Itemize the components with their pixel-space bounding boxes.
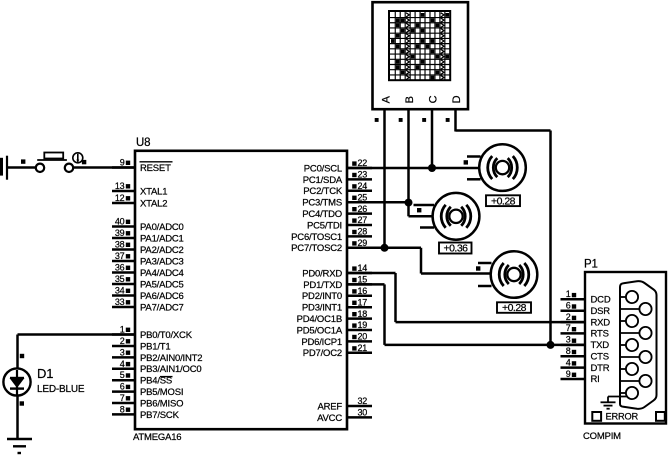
P1 internal ground: [601, 397, 627, 409]
svg-text:C: C: [428, 95, 440, 103]
wire PD1/TXD to P1 TXD: [347, 284, 585, 345]
wire PC0 to motor top: [347, 167, 480, 170]
pin end marker: [417, 208, 421, 212]
svg-text:PC6/TOSC1: PC6/TOSC1: [291, 232, 342, 243]
wire PD0/RXD to P1 RXD: [347, 273, 585, 322]
junction A/PC7: [381, 244, 389, 252]
pin 8 (PB7/SCK): [112, 404, 180, 420]
pin 35 (PA5/ADC5): [112, 274, 184, 290]
P1 pin 2 (RXD): [561, 312, 611, 328]
pin 2 (PB1/T1): [112, 336, 170, 352]
LED D1 LED-BLUE: [3, 366, 84, 396]
pin end marker: [20, 354, 24, 358]
svg-text:PA7/ADC7: PA7/ADC7: [140, 302, 184, 313]
P1 pin 9 (RI): [561, 369, 600, 385]
svg-text:9: 9: [120, 158, 125, 168]
svg-text:1: 1: [120, 325, 125, 335]
push button: [36, 153, 83, 173]
svg-text:9: 9: [566, 369, 571, 379]
ground: [7, 439, 32, 453]
svg-text:PA0/ADC0: PA0/ADC0: [140, 222, 184, 233]
svg-text:28: 28: [358, 227, 368, 237]
svg-text:PC4/TDO: PC4/TDO: [302, 209, 342, 220]
svg-text:35: 35: [115, 274, 125, 284]
svg-text:5: 5: [120, 370, 125, 380]
svg-text:COMPIM: COMPIM: [583, 431, 621, 442]
svg-text:8: 8: [566, 346, 571, 356]
svg-text:2: 2: [120, 336, 125, 346]
P1 pin 6 (DSR): [561, 301, 611, 317]
svg-text:19: 19: [358, 320, 368, 330]
pin end marker: [476, 266, 480, 270]
pin 21 (PD7/OC2): [303, 343, 372, 359]
wire PC7 to motor bottom: [347, 248, 492, 274]
svg-text:16: 16: [358, 286, 368, 296]
svg-text:PD3/INT1: PD3/INT1: [302, 303, 342, 314]
svg-text:B: B: [404, 96, 416, 103]
svg-text:26: 26: [358, 204, 368, 214]
wire terminal to button: [7, 166, 37, 169]
pin 9 (RESET): [112, 158, 173, 174]
pin 14 (PD0/RXD): [302, 263, 372, 279]
svg-text:DTR: DTR: [591, 363, 610, 374]
pin 12 (XTAL2): [112, 193, 167, 209]
svg-text:PC0/SCL: PC0/SCL: [304, 163, 342, 174]
pin 26 (PC4/TDO): [302, 204, 372, 220]
svg-text:32: 32: [358, 396, 368, 406]
svg-text:LED-BLUE: LED-BLUE: [37, 384, 85, 395]
svg-text:RI: RI: [591, 374, 600, 385]
svg-text:24: 24: [358, 181, 368, 191]
svg-text:RTS: RTS: [591, 329, 609, 340]
svg-text:8: 8: [120, 404, 125, 414]
svg-text:33: 33: [115, 297, 125, 307]
wire keypad A to PC7 net: [383, 108, 386, 248]
svg-text:D1: D1: [37, 366, 53, 381]
D-sub socket: [620, 281, 657, 409]
P1 pin 1 (DCD): [561, 289, 611, 305]
svg-text:PA1/ADC1: PA1/ADC1: [140, 233, 184, 244]
motor bottom value +0.28: [497, 302, 531, 314]
junction C/PC0: [428, 164, 436, 172]
svg-text:+0.28: +0.28: [491, 195, 516, 207]
svg-text:17: 17: [358, 297, 368, 307]
wire keypad C to PC0 net: [431, 108, 434, 168]
pin 25 (PC3/TMS): [302, 192, 372, 208]
pin 6 (PB5/MOSI): [112, 382, 183, 398]
svg-text:PB1/T1: PB1/T1: [140, 341, 170, 352]
svg-text:XTAL1: XTAL1: [140, 186, 167, 197]
pin 29 (PC7/TOSC2): [291, 238, 372, 254]
pin 40 (PA0/ADC0): [112, 217, 184, 233]
svg-text:29: 29: [358, 238, 368, 248]
pin 32 (AREF): [317, 396, 372, 412]
svg-text:D: D: [451, 95, 463, 103]
svg-text:RESET: RESET: [140, 163, 171, 174]
pin end marker: [82, 160, 86, 164]
svg-text:PC1/SDA: PC1/SDA: [303, 175, 343, 186]
wire keypad D to TXD net: [456, 108, 551, 345]
junction D/TXD: [547, 341, 555, 349]
svg-text:23: 23: [358, 170, 368, 180]
svg-text:AVCC: AVCC: [317, 413, 342, 424]
P1 pin 7 (RTS): [561, 323, 609, 339]
svg-text:3: 3: [566, 335, 571, 345]
svg-text:PD5/OC1A: PD5/OC1A: [297, 325, 343, 336]
keypad: [373, 2, 469, 109]
pin 1 (PB0/T0/XCK): [112, 325, 193, 341]
wire LED to ground: [16, 395, 19, 439]
svg-text:TXD: TXD: [591, 340, 610, 351]
svg-text:PD0/RXD: PD0/RXD: [302, 268, 342, 279]
svg-text:21: 21: [358, 343, 368, 353]
keypad bitmap: [389, 11, 450, 80]
pin 7 (PB6/MISO): [112, 393, 183, 409]
svg-text:14: 14: [358, 263, 368, 273]
svg-text:38: 38: [115, 240, 125, 250]
svg-text:PB5/MOSI: PB5/MOSI: [140, 387, 183, 398]
svg-text:+0.28: +0.28: [502, 302, 527, 314]
pin 37 (PA3/ADC3): [112, 251, 184, 267]
svg-text:PA4/ADC4: PA4/ADC4: [140, 268, 184, 279]
svg-text:30: 30: [358, 408, 368, 418]
svg-text:39: 39: [115, 228, 125, 238]
svg-text:34: 34: [115, 286, 125, 296]
svg-text:15: 15: [358, 275, 368, 285]
svg-text:AREF: AREF: [317, 401, 342, 412]
svg-text:18: 18: [358, 309, 368, 319]
pin 22 (PC0/SCL): [304, 158, 372, 174]
P1 pin 3 (TXD): [561, 335, 610, 351]
keypad pin D end marker: [446, 118, 450, 122]
svg-text:ATMEGA16: ATMEGA16: [133, 432, 181, 443]
P1 pin 4 (DTR): [561, 357, 610, 373]
wire button to RESET pin 9: [73, 166, 135, 169]
svg-text:PB7/SCK: PB7/SCK: [140, 410, 180, 421]
svg-text:PA3/ADC3: PA3/ADC3: [140, 256, 184, 267]
svg-text:20: 20: [358, 332, 368, 342]
svg-text:7: 7: [120, 393, 125, 403]
svg-text:PA6/ADC6: PA6/ADC6: [140, 291, 184, 302]
svg-text:PB3/AIN1/OC0: PB3/AIN1/OC0: [140, 364, 202, 375]
svg-text:2: 2: [566, 312, 571, 322]
pin end marker: [464, 160, 468, 164]
svg-text:40: 40: [115, 217, 125, 227]
svg-text:XTAL2: XTAL2: [140, 198, 167, 209]
pin 3 (PB2/AIN0/INT2): [112, 347, 202, 363]
motor middle value +0.36: [439, 243, 472, 255]
pin 39 (PA1/ADC1): [112, 228, 184, 244]
pin 13 (XTAL1): [112, 181, 167, 197]
svg-text:3: 3: [120, 347, 125, 357]
motor middle: [414, 193, 480, 240]
pin 15 (PD1/TXD): [303, 275, 372, 291]
svg-text:PD4/OC1B: PD4/OC1B: [297, 314, 342, 325]
pin 18 (PD4/OC1B): [297, 309, 372, 325]
svg-text:13: 13: [115, 181, 125, 191]
svg-text:1: 1: [566, 289, 571, 299]
svg-text:+0.36: +0.36: [443, 243, 468, 255]
wire PC3 to motor middle: [347, 202, 434, 216]
pin end marker: [20, 401, 24, 405]
svg-text:PD2/INT0: PD2/INT0: [302, 291, 342, 302]
keypad pin C end marker: [422, 118, 426, 122]
pin 38 (PA2/ADC2): [112, 240, 184, 256]
pin 20 (PD6/ICP1): [301, 332, 372, 348]
svg-text:PB2/AIN0/INT2: PB2/AIN0/INT2: [140, 353, 202, 364]
P1 ERROR indicator: [592, 412, 665, 422]
pin 34 (PA6/ADC6): [112, 286, 184, 302]
svg-text:A: A: [381, 95, 393, 103]
pin 24 (PC2/TCK): [303, 181, 372, 197]
svg-text:P1: P1: [584, 259, 598, 271]
svg-text:PD6/ICP1: PD6/ICP1: [301, 337, 342, 348]
wire PB0 to LED: [18, 335, 136, 370]
svg-text:PD7/OC2: PD7/OC2: [303, 348, 342, 359]
svg-text:PC3/TMS: PC3/TMS: [302, 198, 342, 209]
pin 33 (PA7/ADC7): [112, 297, 184, 313]
motor top value +0.28: [486, 195, 520, 207]
svg-text:PC2/TCK: PC2/TCK: [303, 186, 343, 197]
svg-text:22: 22: [358, 158, 368, 168]
pin 5 (PB4/SS): [112, 370, 173, 386]
svg-text:PC5/TDI: PC5/TDI: [307, 220, 342, 231]
svg-text:36: 36: [115, 263, 125, 273]
pin 17 (PD3/INT1): [302, 297, 372, 313]
svg-text:4: 4: [566, 357, 571, 367]
svg-text:U8: U8: [136, 137, 150, 149]
svg-text:DSR: DSR: [591, 306, 611, 317]
svg-text:27: 27: [358, 215, 368, 225]
pin 30 (AVCC): [317, 408, 372, 424]
pin 27 (PC5/TDI): [307, 215, 372, 231]
pin end marker: [21, 159, 25, 163]
svg-text:7: 7: [566, 323, 571, 333]
keypad pin B end marker: [399, 118, 403, 122]
P1 pin 8 (CTS): [561, 346, 609, 362]
svg-text:PB6/MISO: PB6/MISO: [140, 398, 183, 409]
svg-text:PA5/ADC5: PA5/ADC5: [140, 279, 184, 290]
svg-text:PA2/ADC2: PA2/ADC2: [140, 245, 184, 256]
svg-text:DCD: DCD: [591, 295, 611, 306]
connector P1 COMPIM box: [583, 259, 666, 443]
pin 28 (PC6/TOSC1): [291, 227, 372, 243]
motor top: [467, 144, 526, 191]
svg-text:PB0/T0/XCK: PB0/T0/XCK: [140, 330, 193, 341]
svg-text:12: 12: [115, 193, 125, 203]
svg-text:PC7/TOSC2: PC7/TOSC2: [291, 243, 342, 254]
pin 4 (PB3/AIN1/OC0): [112, 359, 202, 375]
svg-text:RXD: RXD: [591, 317, 611, 328]
op IC U8 ATMEGA16 box: [133, 137, 347, 443]
power terminal: [0, 156, 7, 180]
svg-text:25: 25: [358, 192, 368, 202]
svg-text:CTS: CTS: [591, 351, 609, 362]
junction B/PC3: [405, 199, 413, 207]
svg-text:4: 4: [120, 359, 125, 369]
keypad pin A end marker: [375, 118, 379, 122]
svg-text:ERROR: ERROR: [606, 412, 639, 422]
svg-text:37: 37: [115, 251, 125, 261]
pin 36 (PA4/ADC4): [112, 263, 184, 279]
pin 16 (PD2/INT0): [302, 286, 372, 302]
svg-text:6: 6: [120, 382, 125, 392]
wire keypad B to PC3 net: [407, 108, 410, 202]
keypad pin labels A B C D: [381, 95, 464, 103]
motor bottom: [478, 251, 537, 298]
svg-text:PD1/TXD: PD1/TXD: [303, 280, 342, 291]
svg-text:6: 6: [566, 301, 571, 311]
pin 19 (PD5/OC1A): [297, 320, 372, 336]
pin 23 (PC1/SDA): [303, 170, 372, 186]
